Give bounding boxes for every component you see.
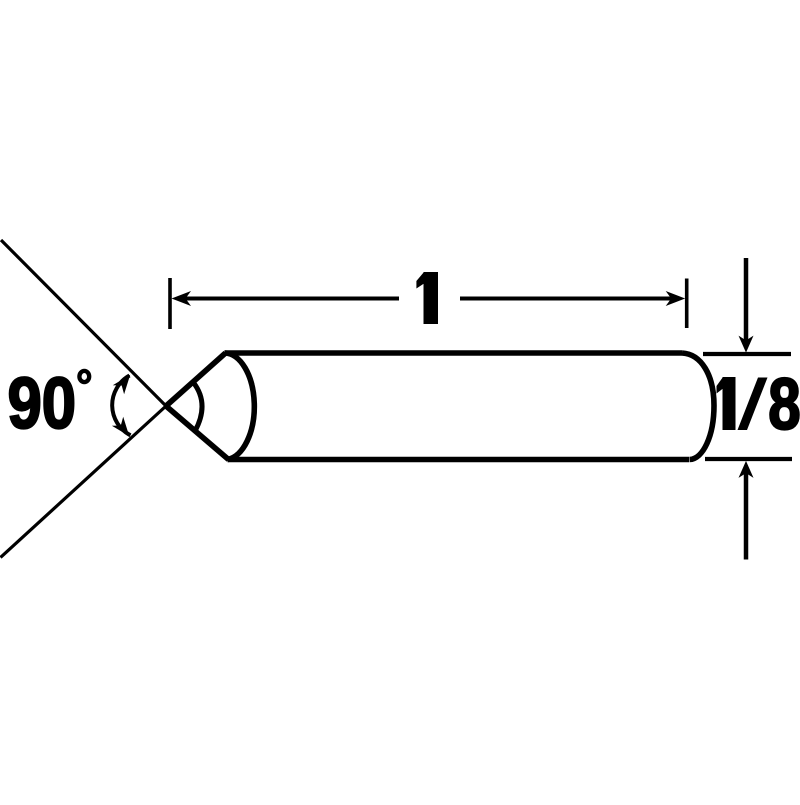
svg-text:90: 90 — [8, 364, 77, 445]
cone base ellipse arc — [225, 353, 255, 460]
arrow up to bottom extension — [744, 472, 749, 560]
angle arc — [112, 376, 130, 436]
arrow down to top extension — [744, 258, 749, 341]
angle arc arrowhead bottom — [112, 417, 129, 436]
degree symbol — [79, 371, 89, 382]
construction line upper-left — [1, 240, 166, 406]
extension line top right — [703, 352, 791, 356]
dimension tick right — [685, 279, 689, 329]
dimension arrowhead right — [666, 291, 686, 306]
cylinder right end cap — [682, 353, 714, 460]
dimension tick left — [168, 278, 172, 329]
angle arc arrowhead top — [113, 375, 130, 394]
dimension label 1 — [416, 272, 438, 324]
cone upper edge — [166, 353, 226, 406]
extension line bottom right — [705, 457, 792, 461]
construction line lower-left — [1, 406, 167, 558]
cylinder bottom edge — [228, 457, 690, 463]
dimension line right segment — [460, 297, 672, 301]
dimension arrowhead left — [172, 291, 192, 306]
dimension line left segment — [184, 297, 399, 301]
cone lower edge — [166, 406, 229, 460]
angle label 90 — [8, 364, 77, 445]
svg-text:8: 8 — [768, 364, 800, 444]
dimension label 1/8 — [717, 364, 800, 444]
cone tip small arc — [193, 382, 202, 431]
cylinder top edge — [225, 350, 683, 356]
